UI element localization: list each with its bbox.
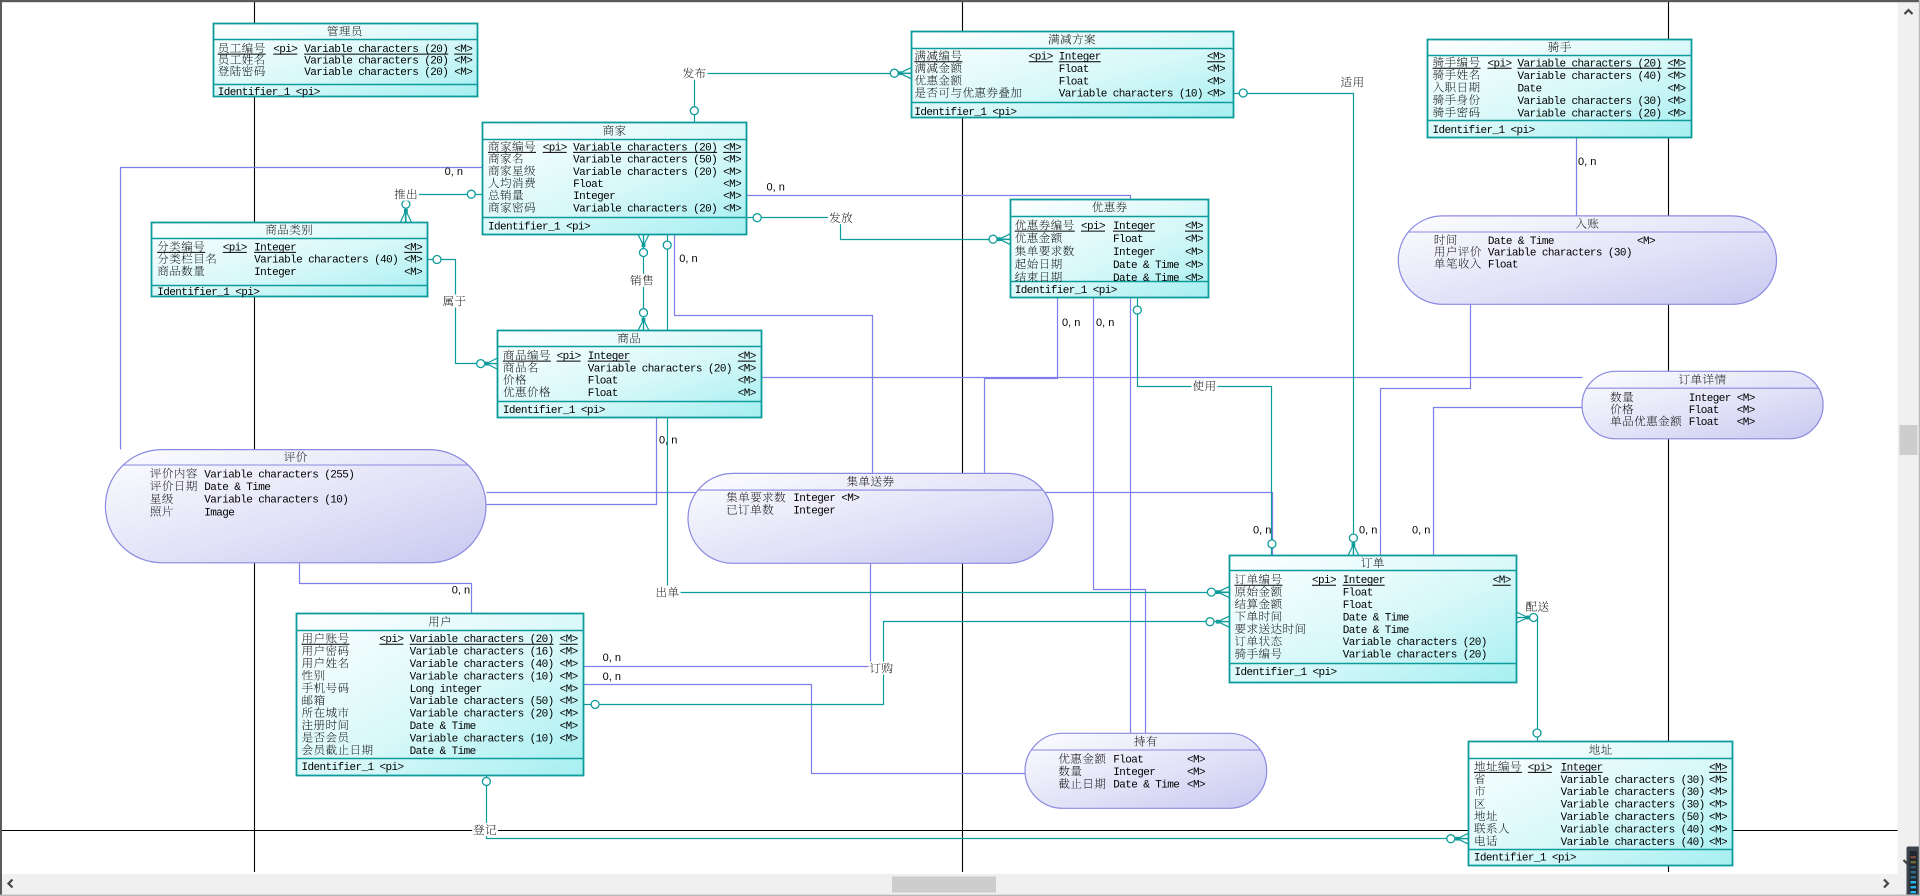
entity 地址	[1469, 742, 1733, 866]
svg-text:<M>: <M>	[723, 167, 741, 179]
svg-text:<M>: <M>	[1187, 755, 1205, 767]
svg-text:<M>: <M>	[1737, 405, 1755, 417]
svg-text:Variable characters (20): Variable characters (20)	[304, 67, 448, 79]
svg-text:<M>: <M>	[1737, 417, 1755, 429]
svg-text:Date & Time: Date & Time	[1488, 236, 1554, 248]
svg-text:0, n: 0, n	[445, 166, 463, 178]
svg-text:0, n: 0, n	[679, 253, 697, 265]
svg-text:<M>: <M>	[738, 388, 756, 400]
svg-text:<M>: <M>	[738, 376, 756, 388]
svg-text:0, n: 0, n	[767, 182, 785, 194]
svg-text:<M>: <M>	[404, 255, 422, 267]
association 评价	[105, 450, 486, 563]
svg-text:Variable characters (40): Variable characters (40)	[1561, 837, 1705, 849]
svg-text:<M>: <M>	[738, 363, 756, 375]
svg-text:Variable characters (20): Variable characters (20)	[410, 709, 554, 721]
svg-text:Integer: Integer	[254, 267, 296, 279]
association 入账	[1398, 216, 1776, 304]
svg-text:Identifier_1 <pi>: Identifier_1 <pi>	[302, 762, 404, 774]
svg-text:<M>: <M>	[1187, 767, 1205, 779]
svg-text:<M>: <M>	[1668, 83, 1686, 95]
svg-text:<M>: <M>	[560, 671, 578, 683]
entity 管理员	[214, 24, 478, 100]
svg-text:<M>: <M>	[1185, 247, 1203, 259]
link 评价-用户	[300, 563, 472, 614]
svg-text:<M>: <M>	[1207, 76, 1225, 88]
relationship 销售 商家-商品	[643, 235, 645, 331]
entity 满减方案	[912, 32, 1234, 120]
svg-text:Date & Time: Date & Time	[1113, 780, 1179, 792]
svg-text:<M>: <M>	[454, 56, 472, 68]
svg-text:0, n: 0, n	[452, 584, 470, 596]
relationship 登记 用户-地址	[487, 776, 1469, 839]
link 集单送券-商家	[675, 235, 873, 474]
svg-text:0, n: 0, n	[603, 652, 621, 664]
link 入账-订单	[1381, 305, 1471, 556]
svg-text:<M>: <M>	[560, 733, 578, 745]
svg-text:<M>: <M>	[454, 67, 472, 79]
svg-text:Identifier_1 <pi>: Identifier_1 <pi>	[503, 405, 605, 417]
svg-text:Variable characters (30): Variable characters (30)	[1518, 96, 1662, 108]
entity 商品	[498, 331, 762, 418]
svg-text:<M>: <M>	[841, 493, 859, 505]
svg-text:Identifier_1 <pi>: Identifier_1 <pi>	[157, 287, 259, 299]
svg-text:Integer: Integer	[1113, 247, 1155, 259]
svg-text:<M>: <M>	[723, 203, 741, 215]
svg-text:Integer: Integer	[1113, 767, 1155, 779]
entity 订单	[1230, 556, 1517, 683]
link 入账-骑手	[1576, 138, 1578, 216]
svg-text:Variable characters (40): Variable characters (40)	[1561, 824, 1705, 836]
svg-text:<M>: <M>	[1207, 89, 1225, 101]
svg-text:Float: Float	[1689, 405, 1719, 417]
svg-text:Float: Float	[1059, 64, 1089, 76]
svg-text:Variable characters (10): Variable characters (10)	[1059, 89, 1203, 101]
relationship 适用 满减方案-订单	[1234, 94, 1354, 556]
relationship 订购 用户-订单	[584, 622, 1230, 705]
svg-text:<M>: <M>	[1737, 393, 1755, 405]
svg-text:<M>: <M>	[560, 709, 578, 721]
link 集单送券-用户	[584, 564, 871, 667]
svg-text:0, n: 0, n	[1096, 317, 1114, 329]
svg-text:<M>: <M>	[1668, 108, 1686, 120]
svg-text:Float: Float	[573, 179, 603, 191]
svg-text:Long integer: Long integer	[410, 684, 482, 696]
svg-text:0, n: 0, n	[659, 434, 677, 446]
svg-text:Date & Time: Date & Time	[1113, 273, 1179, 285]
svg-text:Identifier_1 <pi>: Identifier_1 <pi>	[218, 87, 320, 99]
relationship 推出 商家-商品类别	[406, 195, 483, 223]
svg-text:Integer: Integer	[793, 506, 835, 518]
svg-text:Variable characters (20): Variable characters (20)	[1343, 650, 1487, 662]
svg-text:<M>: <M>	[723, 179, 741, 191]
relationship 发放 商家-优惠券	[747, 218, 1011, 240]
svg-text:Variable characters (10): Variable characters (10)	[204, 495, 348, 507]
svg-text:Variable characters (30): Variable characters (30)	[1561, 775, 1705, 787]
svg-text:Variable characters (20): Variable characters (20)	[573, 167, 717, 179]
svg-text:Variable characters (50): Variable characters (50)	[410, 696, 554, 708]
svg-text:0, n: 0, n	[603, 671, 621, 683]
svg-text:Integer: Integer	[793, 493, 835, 505]
svg-text:Variable characters (50): Variable characters (50)	[1561, 812, 1705, 824]
svg-text:Image: Image	[204, 507, 234, 519]
svg-text:0, n: 0, n	[1359, 524, 1377, 536]
link 持有-用户	[584, 685, 1026, 774]
svg-text:Variable characters (20): Variable characters (20)	[588, 363, 732, 375]
link 持有-商家	[747, 196, 1131, 734]
svg-text:<M>: <M>	[560, 684, 578, 696]
svg-text:Variable characters (20): Variable characters (20)	[1343, 637, 1487, 649]
svg-text:Float: Float	[588, 388, 618, 400]
entity 用户	[297, 614, 584, 776]
svg-text:Variable characters (40): Variable characters (40)	[410, 659, 554, 671]
svg-text:Identifier_1 <pi>: Identifier_1 <pi>	[1015, 285, 1117, 297]
association 持有	[1025, 733, 1267, 808]
link 评价-商家	[121, 168, 483, 450]
svg-text:<M>: <M>	[723, 155, 741, 167]
association 集单送券	[688, 473, 1053, 563]
right scrollbar	[1898, 2, 1920, 874]
svg-text:<M>: <M>	[1185, 234, 1203, 246]
svg-text:<M>: <M>	[1668, 96, 1686, 108]
svg-text:Integer: Integer	[1689, 393, 1731, 405]
svg-text:0, n: 0, n	[1062, 317, 1080, 329]
relationship 发布 商家-满减方案	[695, 74, 912, 124]
svg-text:Variable characters (30): Variable characters (30)	[1488, 248, 1632, 260]
svg-text:Identifier_1 <pi>: Identifier_1 <pi>	[914, 107, 1016, 119]
svg-text:<M>: <M>	[560, 721, 578, 733]
link 评价-订单	[487, 493, 1273, 556]
page boundary vertical lines	[254, 2, 256, 24]
svg-text:Date: Date	[1518, 83, 1542, 95]
svg-text:<M>: <M>	[1709, 775, 1727, 787]
svg-text:<M>: <M>	[1709, 787, 1727, 799]
entity 骑手	[1428, 40, 1692, 138]
svg-text:Variable characters (30): Variable characters (30)	[1561, 787, 1705, 799]
bottom scrollbar	[2, 874, 1898, 894]
svg-text:<M>: <M>	[560, 647, 578, 659]
link 持有-优惠券	[1094, 298, 1146, 734]
svg-text:0, n: 0, n	[1412, 524, 1430, 536]
svg-text:Float: Float	[1059, 76, 1089, 88]
svg-text:<M>: <M>	[1709, 824, 1727, 836]
svg-text:Float: Float	[1488, 259, 1518, 271]
svg-text:Float: Float	[1689, 417, 1719, 429]
relationship 配送 订单-地址	[1517, 618, 1538, 742]
svg-text:Variable characters (255): Variable characters (255)	[204, 469, 354, 481]
svg-text:Date & Time: Date & Time	[410, 746, 476, 758]
svg-text:0, n: 0, n	[1253, 524, 1271, 536]
svg-text:Variable characters (10): Variable characters (10)	[410, 671, 554, 683]
svg-text:<M>: <M>	[404, 267, 422, 279]
svg-text:Integer: Integer	[573, 191, 615, 203]
association 订单详情	[1582, 371, 1823, 439]
link 评价-商品	[486, 418, 657, 505]
svg-text:Float: Float	[1343, 600, 1373, 612]
entity 优惠券	[1011, 200, 1209, 298]
svg-text:Float: Float	[588, 376, 618, 388]
svg-text:Variable characters (20): Variable characters (20)	[573, 203, 717, 215]
link 订单详情-商品	[762, 377, 1583, 379]
svg-text:Identifier_1 <pi>: Identifier_1 <pi>	[1235, 667, 1337, 679]
relationship 出单 商家-订单	[668, 235, 1230, 593]
svg-text:Identifier_1 <pi>: Identifier_1 <pi>	[1433, 125, 1535, 137]
svg-text:Variable characters (40): Variable characters (40)	[1518, 71, 1662, 83]
svg-text:<M>: <M>	[560, 696, 578, 708]
svg-text:Float: Float	[1113, 234, 1143, 246]
svg-text:<M>: <M>	[1187, 780, 1205, 792]
svg-text:0, n: 0, n	[1578, 156, 1596, 168]
svg-text:<M>: <M>	[1709, 800, 1727, 812]
svg-text:<M>: <M>	[560, 659, 578, 671]
svg-text:Float: Float	[1113, 755, 1143, 767]
svg-text:Identifier_1 <pi>: Identifier_1 <pi>	[488, 222, 590, 234]
svg-text:<M>: <M>	[1207, 64, 1225, 76]
svg-text:<M>: <M>	[1637, 236, 1655, 248]
svg-text:Date & Time: Date & Time	[204, 482, 270, 494]
svg-text:Variable characters (20): Variable characters (20)	[1518, 108, 1662, 120]
svg-text:Variable characters (16): Variable characters (16)	[410, 647, 554, 659]
svg-text:<M>: <M>	[1185, 273, 1203, 285]
svg-text:Identifier_1 <pi>: Identifier_1 <pi>	[1474, 853, 1576, 865]
svg-text:Variable characters (40): Variable characters (40)	[254, 255, 398, 267]
svg-text:<M>: <M>	[1185, 260, 1203, 272]
svg-text:<M>: <M>	[1668, 71, 1686, 83]
entity 商品类别	[152, 223, 428, 300]
svg-text:Date & Time: Date & Time	[1343, 625, 1409, 637]
svg-text:<M>: <M>	[1709, 812, 1727, 824]
page boundary horizontal line	[2, 830, 1469, 832]
link 集单送券-优惠券	[985, 298, 1058, 474]
svg-text:<M>: <M>	[723, 191, 741, 203]
svg-text:Variable characters (20): Variable characters (20)	[304, 56, 448, 68]
svg-text:Float: Float	[1343, 588, 1373, 600]
svg-text:Variable characters (50): Variable characters (50)	[573, 155, 717, 167]
svg-text:Variable characters (30): Variable characters (30)	[1561, 800, 1705, 812]
entity 商家	[483, 123, 747, 235]
svg-text:Variable characters (10): Variable characters (10)	[410, 733, 554, 745]
relationship 使用 优惠券-订单	[1138, 298, 1272, 556]
relationship 属于 商品-商品类别	[428, 260, 498, 364]
svg-text:Date & Time: Date & Time	[1343, 612, 1409, 624]
svg-text:<M>: <M>	[1709, 837, 1727, 849]
svg-text:Date & Time: Date & Time	[410, 721, 476, 733]
link 订单详情-订单	[1434, 408, 1583, 556]
svg-text:Date & Time: Date & Time	[1113, 260, 1179, 272]
